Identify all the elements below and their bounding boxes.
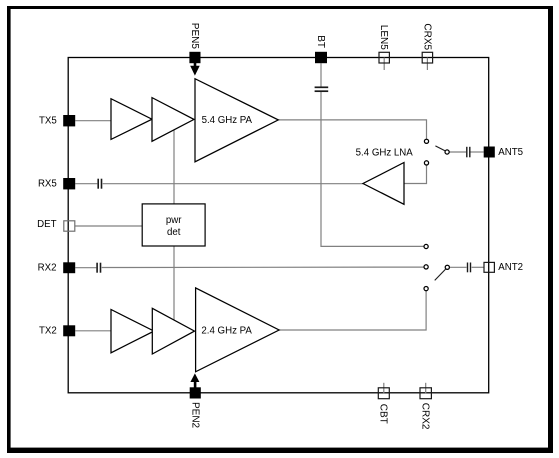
svg-text:RX2: RX2 [38, 262, 57, 273]
wire LEN5 stub [383, 58, 385, 70]
wire 5.4GHz PA output to ANT5 switch throw [278, 120, 426, 139]
capacitor on RX5 line [98, 179, 101, 189]
wire TX2 to amplifier chain [75, 330, 111, 332]
pad DET [64, 221, 75, 231]
pad PEN2 [190, 387, 201, 398]
wire BT pad to capacitor [320, 63, 322, 86]
wire ANT2 capacitor to pad [472, 266, 484, 268]
svg-text:pwr: pwr [166, 215, 182, 226]
wire 2.4GHz PA output to ANT2 switch throw [279, 291, 426, 330]
wire BT capacitor to ANT2 switch throw [321, 92, 424, 247]
svg-text:det: det [167, 227, 181, 238]
wire 5.4GHz driver stage to pwr det [173, 130, 175, 204]
wire ANT5 capacitor to pad [470, 151, 483, 153]
wire ANT2 switch pole to capacitor [450, 266, 467, 268]
amplifier 2.4GHz driver stage 2 [152, 308, 194, 354]
switch ANT2 throw contact from PA [424, 287, 428, 291]
wire LNA input to ANT5 switch throw [404, 165, 427, 183]
amplifier 5.4 GHz PA output stage [195, 79, 278, 162]
svg-text:PEN5: PEN5 [189, 23, 200, 50]
svg-text:5.4 GHz PA: 5.4 GHz PA [202, 115, 253, 126]
pad PEN5 [189, 52, 200, 63]
svg-text:LEN5: LEN5 [378, 25, 389, 50]
pad CRX2 [420, 388, 431, 399]
amplifier 5.4GHz driver stage 2 [152, 98, 194, 142]
svg-text:2.4 GHz PA: 2.4 GHz PA [201, 325, 252, 336]
switch ANT5 throw contact from PA [424, 139, 428, 143]
wire pwr det to 2.4GHz driver stage [173, 246, 175, 321]
wire TX5 to amplifier chain [75, 120, 111, 122]
pad BT [315, 52, 327, 63]
svg-text:TX2: TX2 [39, 325, 57, 336]
wire capacitor to ANT2 switch throw [102, 266, 424, 268]
svg-text:ANT2: ANT2 [498, 262, 523, 273]
wire capacitor to LNA output [103, 183, 363, 185]
svg-text:ANT5: ANT5 [498, 147, 523, 158]
arrow PEN5 enable into 5.4GHz PA [190, 63, 200, 76]
amplifier 2.4 GHz PA output stage [196, 288, 280, 372]
amplifier 2.4GHz driver stage 1 [111, 310, 154, 353]
pad LEN5 [379, 52, 389, 63]
pad TX5 [63, 115, 75, 126]
wire CBT stub [383, 383, 385, 393]
switch ANT2 throw contact from BT [424, 244, 428, 248]
wire RX2 pad to capacitor [75, 267, 96, 269]
capacitor on BT line [315, 87, 329, 91]
pad RX5 [63, 178, 75, 189]
capacitor at ANT2 [468, 263, 471, 273]
pad ANT5 [484, 147, 495, 158]
svg-text:BT: BT [315, 35, 326, 48]
pad CRX5 [422, 52, 432, 63]
pad TX2 [63, 325, 75, 336]
switch ANT5 pole contact [445, 150, 449, 154]
capacitor at ANT5 [467, 147, 470, 158]
svg-text:DET: DET [37, 219, 56, 230]
switch ANT2 pole contact [445, 265, 449, 269]
pad CBT [378, 388, 389, 399]
wire RX5 pad to capacitor [75, 183, 97, 185]
switch ANT2 arm [435, 269, 446, 280]
svg-text:PEN2: PEN2 [190, 402, 201, 429]
pad RX2 [63, 262, 75, 273]
wire CRX5 stub [426, 58, 428, 70]
pad ANT2 [484, 262, 494, 272]
capacitor on RX2 line [97, 263, 100, 273]
arrow PEN2 enable into 2.4GHz PA [190, 373, 199, 387]
svg-text:CRX5: CRX5 [421, 23, 432, 50]
chip boundary rectangle [68, 58, 489, 393]
svg-text:RX5: RX5 [38, 178, 57, 189]
svg-text:CBT: CBT [377, 404, 388, 424]
amplifier 5.4 GHz LNA [363, 163, 404, 205]
svg-text:5.4 GHz LNA: 5.4 GHz LNA [356, 148, 414, 159]
svg-text:TX5: TX5 [39, 115, 57, 126]
switch ANT5 throw contact to LNA [424, 161, 428, 165]
switch ANT2 throw contact from RX2 [424, 265, 428, 269]
switch ANT5 arm [435, 146, 445, 151]
amplifier 5.4GHz driver stage 1 [111, 99, 152, 140]
block pwr det [142, 204, 205, 246]
wire CRX2 stub [425, 383, 427, 393]
svg-text:CRX2: CRX2 [420, 403, 431, 430]
wire ANT5 switch pole to capacitor [449, 151, 466, 153]
wire DET to pwr det block [75, 225, 142, 227]
